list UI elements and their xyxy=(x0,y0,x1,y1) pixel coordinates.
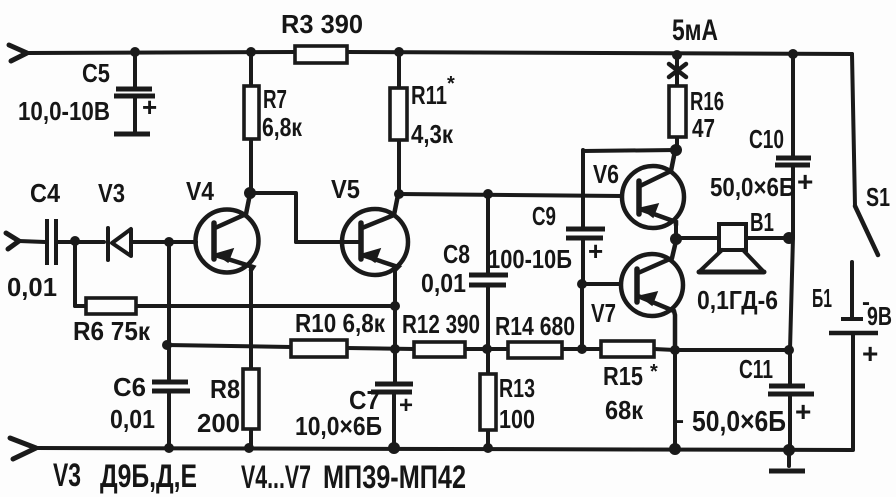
svg-text:C5: C5 xyxy=(82,58,110,88)
svg-text:V7: V7 xyxy=(591,298,616,328)
wire node B down through C6 xyxy=(167,242,171,448)
svg-text:В1: В1 xyxy=(750,207,774,237)
capacitor C10 xyxy=(775,158,811,165)
svg-text:C9: C9 xyxy=(532,201,556,231)
svg-text:V4...V7: V4...V7 xyxy=(241,459,311,495)
svg-text:V3: V3 xyxy=(98,178,125,208)
node R7 top xyxy=(246,47,256,57)
capacitor C7 xyxy=(371,384,413,392)
resistor R15 xyxy=(601,341,654,357)
wire output node to speaker xyxy=(676,236,719,240)
svg-text:R10 6,8к: R10 6,8к xyxy=(295,308,386,338)
node V5 collector xyxy=(394,189,404,199)
input arrow mid xyxy=(6,233,19,249)
wire R10 to V5 emitter node xyxy=(347,348,414,349)
wire row B start to R10 xyxy=(167,345,291,347)
svg-text:V4: V4 xyxy=(186,176,214,206)
capacitor C11 xyxy=(768,386,814,394)
wire R14 right to node xyxy=(562,347,601,351)
ground stub xyxy=(787,450,791,466)
node V7 emitter rail xyxy=(669,443,681,455)
resistor R8 xyxy=(243,369,259,429)
wire R11 leads xyxy=(397,52,401,194)
svg-text:V3: V3 xyxy=(53,457,81,493)
battery minus plate xyxy=(841,317,863,321)
svg-text:+: + xyxy=(588,236,603,266)
svg-text:C10: C10 xyxy=(749,124,784,154)
wire C9 stem xyxy=(581,150,585,283)
node C11 bottom rail xyxy=(783,444,795,456)
svg-text:МП39-МП42: МП39-МП42 xyxy=(323,459,466,495)
wire top rail right of R3 xyxy=(347,52,852,54)
wire bottom rail xyxy=(36,448,852,450)
svg-text:V6: V6 xyxy=(593,159,619,189)
node R13 bottom rail xyxy=(483,443,493,453)
capacitor C9 xyxy=(566,229,605,238)
wire C4 to node A xyxy=(58,240,104,244)
svg-text:R8: R8 xyxy=(210,374,240,404)
wire C9 node to V7 base xyxy=(582,282,621,286)
wire C8 stem xyxy=(486,194,490,349)
capacitor C5 xyxy=(114,89,155,96)
resistor R14 xyxy=(508,342,562,358)
resistor R12 xyxy=(414,342,465,357)
svg-text:0,01: 0,01 xyxy=(421,268,466,298)
svg-text:0,1ГД-6: 0,1ГД-6 xyxy=(697,285,778,315)
capacitor C6 xyxy=(152,382,190,391)
svg-text:50,0×6Б: 50,0×6Б xyxy=(692,406,786,438)
breaking point X symbol xyxy=(669,64,686,77)
ground bar xyxy=(769,469,805,474)
transistor V7 xyxy=(621,241,683,350)
svg-text:+: + xyxy=(797,166,813,197)
node V7 emitter xyxy=(670,345,680,355)
svg-text:+: + xyxy=(399,392,413,419)
wire V4 collector to R7 node xyxy=(250,193,296,242)
node A C4 out xyxy=(70,236,80,246)
node C11 top xyxy=(784,345,794,355)
svg-text:4,3к: 4,3к xyxy=(411,119,454,149)
wire C10 node down to C11 xyxy=(790,237,793,450)
node R14 R15 V7 base divider xyxy=(577,344,587,354)
transistor V6 xyxy=(622,151,684,228)
svg-text:+: + xyxy=(142,92,157,122)
speaker B1 cone xyxy=(699,250,764,272)
svg-text:200: 200 xyxy=(197,408,240,438)
diode V3 triangle xyxy=(112,229,131,256)
wire C10 stem xyxy=(791,54,795,237)
svg-text:C6: C6 xyxy=(113,372,146,402)
svg-text:R11: R11 xyxy=(411,80,447,110)
wire R7 leads xyxy=(249,53,253,192)
resistor R3 xyxy=(295,46,347,63)
svg-text:50,0×6Б: 50,0×6Б xyxy=(710,172,795,202)
transistor V5 xyxy=(296,195,408,275)
battery plus plate xyxy=(829,331,878,336)
svg-text:47: 47 xyxy=(692,113,715,143)
input arrow bottom xyxy=(10,438,36,459)
svg-text:68к: 68к xyxy=(605,395,644,425)
svg-text:C4: C4 xyxy=(30,178,60,208)
svg-text:R6 75к: R6 75к xyxy=(73,316,151,346)
wire diode to node B xyxy=(133,240,196,244)
node C6 bottom rail xyxy=(164,443,174,453)
resistor R10 xyxy=(291,340,347,357)
svg-text:+: + xyxy=(862,338,878,369)
svg-text:C8: C8 xyxy=(443,239,470,269)
node row B left xyxy=(162,340,172,350)
svg-text:S1: S1 xyxy=(866,182,890,212)
resistor R7 xyxy=(244,86,259,139)
wire C9 node down to row B xyxy=(580,284,584,349)
wire V7 emitter down to bottom rail xyxy=(673,350,677,449)
wire S1 lower to battery xyxy=(850,262,854,318)
wire speaker to C10 bottom node xyxy=(746,236,789,240)
speaker B1 box xyxy=(719,224,746,250)
node V5 emitter row B xyxy=(390,344,400,354)
node C10 top xyxy=(788,49,798,59)
svg-text:Б1: Б1 xyxy=(812,283,832,313)
wire V5 collector node row to V6 base xyxy=(399,194,622,196)
resistor R11 xyxy=(390,88,407,140)
switch S1 lever xyxy=(855,206,878,255)
svg-text:0,01: 0,01 xyxy=(7,272,57,302)
wire C9 branch top xyxy=(583,150,676,151)
svg-text:9В: 9В xyxy=(867,301,892,331)
svg-text:10,0×6Б: 10,0×6Б xyxy=(295,411,382,441)
node output xyxy=(670,233,682,245)
node R12 R13 xyxy=(482,344,492,354)
diode V3 cathode bar xyxy=(106,228,110,260)
wire R13 leads xyxy=(486,349,490,448)
svg-text:R14 680: R14 680 xyxy=(495,311,575,341)
wire V5 emitter down through C7 xyxy=(394,268,395,448)
svg-text:0,01: 0,01 xyxy=(110,404,155,434)
wire R16 leads xyxy=(675,56,679,150)
svg-text:R3 390: R3 390 xyxy=(281,9,363,39)
wire battery plus stem to bottom rail xyxy=(851,334,855,450)
wire row A R6 right to V5 emitter xyxy=(75,304,395,308)
wire node A down to R6 xyxy=(73,241,77,306)
resistor R16 xyxy=(669,86,686,137)
svg-text:+: + xyxy=(795,396,811,427)
node C8 top xyxy=(483,189,493,199)
node V6 collector R16 xyxy=(670,144,682,156)
wire V7 emitter node to C11 node xyxy=(675,348,788,352)
resistor R13 xyxy=(480,374,496,430)
wire R12 right to R13 node xyxy=(465,347,508,351)
wire C5 stem xyxy=(133,53,137,133)
svg-text:C11: C11 xyxy=(739,354,773,384)
wire top rail left of R3 xyxy=(27,52,296,53)
input arrow top xyxy=(9,45,27,61)
node R11 top xyxy=(394,47,404,57)
node B diode out xyxy=(164,237,174,247)
svg-text:10,0-10В: 10,0-10В xyxy=(18,96,110,126)
svg-text:5мА: 5мА xyxy=(672,14,718,47)
svg-text:R13: R13 xyxy=(499,373,535,403)
svg-text:Д9Б,Д,Е: Д9Б,Д,Е xyxy=(100,458,197,494)
capacitor C8 xyxy=(469,275,508,285)
node speaker C10 xyxy=(783,232,795,244)
svg-text:R15: R15 xyxy=(603,361,643,391)
svg-text:R16: R16 xyxy=(690,86,724,116)
svg-text:R12 390: R12 390 xyxy=(402,309,480,339)
wire input row to C4 xyxy=(19,241,45,242)
wire V4 emitter down through R8 xyxy=(249,267,253,448)
capacitor C4 xyxy=(47,219,56,265)
wire V6 emitter to output node xyxy=(674,224,678,239)
svg-text:V5: V5 xyxy=(331,174,360,204)
resistor R6 xyxy=(86,298,136,314)
capacitor C5 end bar xyxy=(114,132,150,137)
svg-text:*: * xyxy=(650,361,658,383)
wire R15 right to V7 emitter node xyxy=(654,349,675,350)
wire S1 upper xyxy=(852,54,855,206)
node V4 collector xyxy=(244,187,256,199)
node C7 bottom rail xyxy=(388,442,400,454)
svg-text:-: - xyxy=(676,407,684,434)
svg-text:6,8к: 6,8к xyxy=(262,112,303,142)
node R8 bottom rail xyxy=(244,443,254,453)
node C5 top xyxy=(130,47,140,57)
node V5 emitter row A xyxy=(390,301,400,311)
svg-text:R7: R7 xyxy=(263,84,287,114)
transistor V4 xyxy=(196,194,259,273)
svg-text:100: 100 xyxy=(499,404,535,434)
node R16 top xyxy=(672,50,682,60)
node C9 V7 base xyxy=(577,279,587,289)
svg-text:*: * xyxy=(447,73,455,95)
svg-text:100-10Б: 100-10Б xyxy=(488,244,572,274)
